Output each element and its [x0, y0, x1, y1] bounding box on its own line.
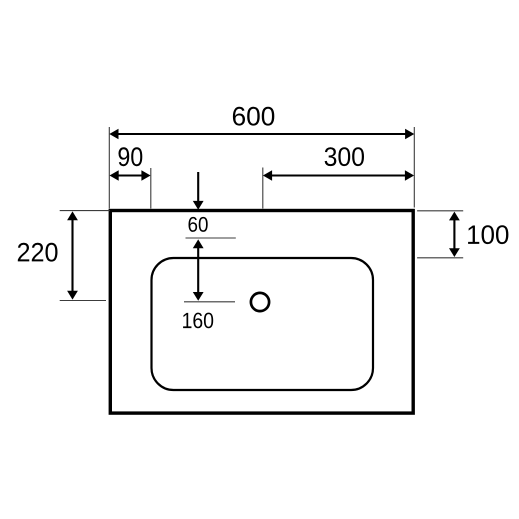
arrowhead 100 top — [449, 212, 460, 221]
label 600 — [233, 107, 274, 126]
label 160 — [183, 313, 213, 329]
arrowhead 600 left — [109, 129, 118, 139]
leader arrowhead down — [193, 201, 204, 210]
label 60 — [189, 217, 208, 232]
label 100 — [468, 225, 508, 244]
tick line at hole centerline — [184, 301, 235, 303]
extension line 90 right — [150, 168, 152, 209]
arrowhead 300 left — [263, 170, 272, 180]
dimension double arrow between ticks — [197, 242, 199, 298]
extension line 300 left — [262, 168, 264, 209]
basin bowl outline — [152, 258, 374, 390]
extension line right shared by 600 and 300 — [413, 127, 415, 208]
arrowhead down at 160 tick — [193, 292, 204, 301]
extension line 220 bottom — [60, 300, 106, 302]
arrowhead 90 left — [110, 170, 119, 180]
label 220 — [18, 243, 58, 262]
extension line 100 top — [417, 210, 463, 212]
tick line below 60 — [186, 237, 236, 239]
dimension line 220 — [71, 214, 73, 297]
countertop outline — [110, 211, 413, 414]
arrowhead 220 top — [67, 211, 78, 220]
arrowhead 300 right — [405, 170, 414, 180]
dimension line 100 — [453, 214, 455, 255]
dimension line 90 — [112, 174, 148, 176]
leader line down to countertop top edge — [197, 172, 199, 202]
arrowhead 220 bottom — [67, 291, 78, 300]
label 90 — [118, 147, 142, 166]
label 300 — [325, 147, 364, 166]
extension line 220 top — [60, 210, 110, 212]
dimension line 600 — [113, 133, 411, 135]
dimension line 300 — [266, 174, 412, 176]
extension line 100 bottom — [417, 257, 463, 259]
arrowhead 600 right — [405, 129, 414, 139]
extension line left shared by 600 and 90 — [108, 127, 110, 209]
arrowhead 100 bottom — [449, 248, 460, 257]
drain hole — [251, 293, 269, 311]
arrowhead up at 60 tick — [193, 239, 204, 248]
arrowhead 90 right — [141, 170, 150, 180]
